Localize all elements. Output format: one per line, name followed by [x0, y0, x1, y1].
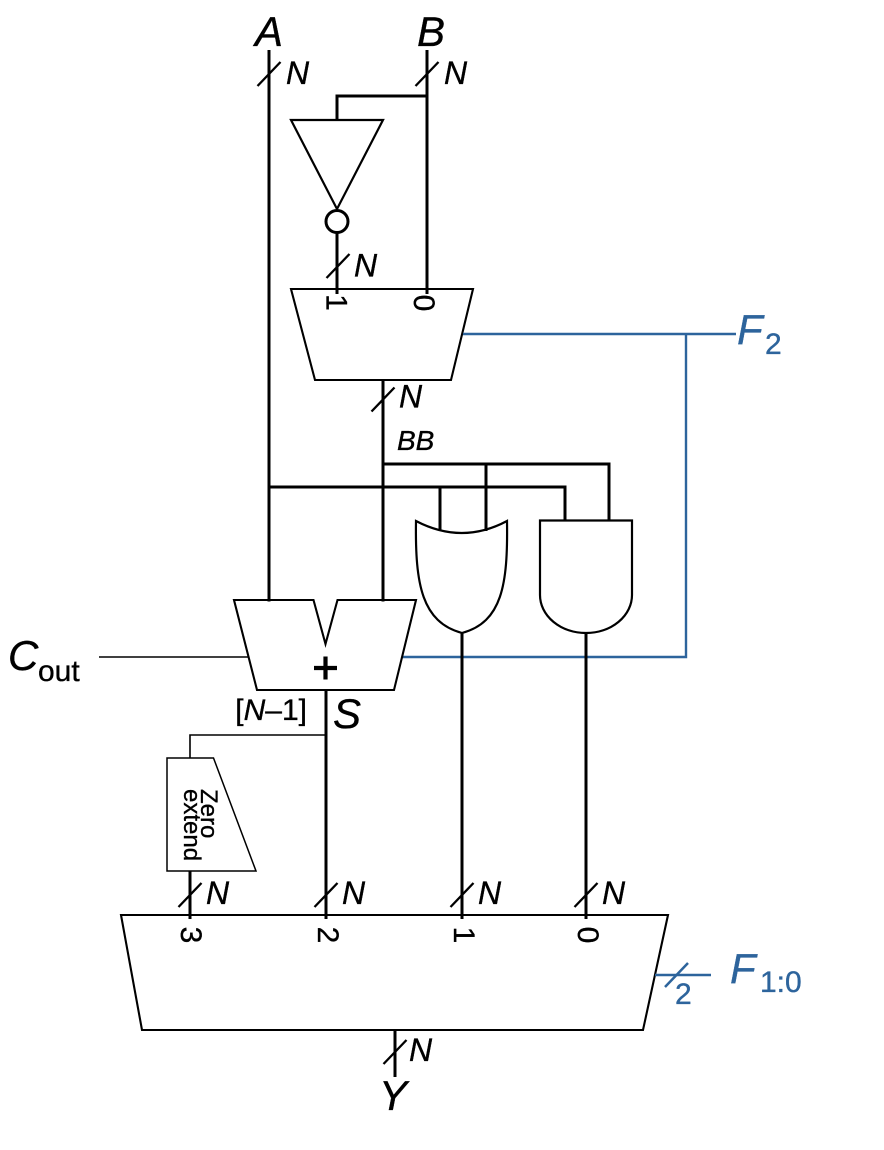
- svg-text:2: 2: [765, 328, 782, 361]
- svg-text:extend: extend: [178, 789, 205, 861]
- wire inverter output: [336, 231, 339, 294]
- svg-text:3: 3: [174, 927, 207, 944]
- slash on inverter output bus: [327, 254, 350, 278]
- svg-text:F: F: [730, 945, 758, 992]
- svg-text:1:0: 1:0: [760, 966, 802, 999]
- zero extend block: [167, 758, 256, 871]
- svg-text:BB: BB: [397, 425, 434, 456]
- svg-text:2: 2: [675, 978, 692, 1011]
- svg-text:1: 1: [320, 294, 353, 311]
- inverter bubble: [326, 211, 348, 233]
- svg-text:2: 2: [311, 927, 344, 944]
- blue net F2: [402, 334, 736, 657]
- svg-text:F: F: [737, 306, 765, 353]
- wire adder output S: [325, 690, 328, 919]
- svg-text:N: N: [444, 55, 468, 91]
- svg-text:S: S: [333, 690, 361, 737]
- mux 4:1 trapezoid: [121, 915, 668, 1030]
- svg-text:N: N: [286, 55, 310, 91]
- adder: [234, 600, 416, 690]
- blue net F1:0: [655, 974, 711, 976]
- wire mux 2:1 output BB: [382, 380, 385, 602]
- svg-text:[N–1]: [N–1]: [235, 694, 307, 727]
- svg-text:B: B: [417, 8, 445, 55]
- svg-text:0: 0: [571, 927, 604, 944]
- mux 2:1 trapezoid: [291, 289, 473, 380]
- OR gate: [416, 521, 507, 633]
- slash on input 0: [575, 883, 598, 907]
- AND gate: [540, 521, 632, 634]
- svg-text:N: N: [354, 248, 378, 284]
- slash on A bus: [258, 62, 281, 86]
- svg-text:C: C: [8, 632, 39, 679]
- svg-text:out: out: [38, 655, 80, 688]
- wire B vertical: [426, 50, 429, 294]
- slash on input 3: [179, 883, 202, 907]
- svg-text:N: N: [399, 379, 423, 415]
- svg-text:N: N: [409, 1032, 433, 1068]
- svg-text:A: A: [252, 8, 283, 55]
- wire Y output: [394, 1030, 397, 1077]
- wire A vertical: [268, 50, 271, 602]
- slash on input 1: [451, 883, 474, 907]
- wire Cout: [99, 656, 248, 658]
- svg-text:1: 1: [447, 927, 480, 944]
- slash on BB bus: [372, 388, 395, 412]
- adder plus sign: [314, 657, 337, 680]
- wire OR output: [461, 632, 464, 919]
- blue slash on F1:0: [665, 963, 688, 987]
- wire BB horizontal bus: [383, 464, 609, 531]
- svg-text:N: N: [206, 875, 230, 911]
- inverter triangle: [291, 120, 383, 209]
- wire S tap to zero extend: [190, 735, 326, 758]
- wire AND output: [585, 633, 588, 919]
- svg-text:N: N: [478, 875, 502, 911]
- svg-text:N: N: [602, 875, 626, 911]
- wire zero extend output: [189, 871, 192, 919]
- wire B to inverter input: [337, 96, 427, 120]
- svg-text:0: 0: [407, 295, 440, 312]
- slash on Y bus: [384, 1040, 407, 1064]
- wire A horizontal bus: [269, 487, 565, 531]
- svg-text:Y: Y: [379, 1072, 410, 1119]
- slash on input 2: [315, 883, 338, 907]
- slash on B bus: [416, 62, 439, 86]
- svg-text:N: N: [342, 875, 366, 911]
